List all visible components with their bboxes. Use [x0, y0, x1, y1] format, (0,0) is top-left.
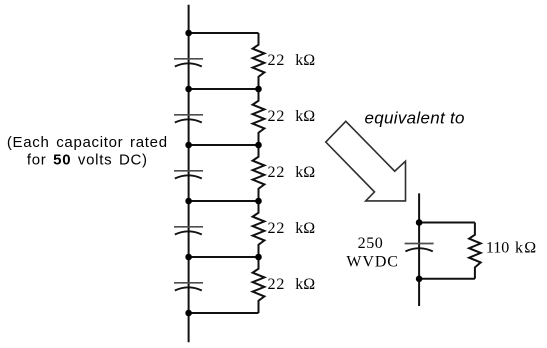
wire node6 horizontal [189, 312, 259, 314]
wire node3 horizontal [189, 144, 259, 146]
wire equivalent vertical bus [418, 193, 420, 306]
svg-text:110kΩ: 110kΩ [486, 239, 537, 256]
wire node2 horizontal [189, 88, 259, 90]
svg-text:WVDC: WVDC [346, 254, 398, 271]
resistor R equivalent [469, 223, 481, 279]
wire node4 horizontal [189, 200, 259, 202]
value label R5 22 kOhm [268, 276, 316, 293]
svg-text:22kΩ: 22kΩ [268, 164, 316, 181]
svg-text:(Each capacitor rated: (Each capacitor rated [7, 134, 168, 151]
capacitor C1 [174, 59, 203, 67]
resistor R5 [253, 257, 265, 313]
svg-text:22kΩ: 22kΩ [268, 220, 316, 237]
node B2 [255, 86, 262, 93]
value label R3 22 kOhm [268, 164, 316, 181]
wire equivalent bottom horizontal [419, 278, 475, 280]
node A3 [185, 142, 192, 149]
node EQ top [416, 219, 423, 226]
node A5 [185, 254, 192, 261]
capacitor C3 [174, 171, 203, 179]
capacitor C equivalent [405, 244, 434, 252]
capacitor C5 [174, 283, 203, 291]
annotation capacitor rating note [7, 134, 168, 168]
value label 250 WVDC [346, 235, 398, 271]
svg-text:22kΩ: 22kΩ [268, 108, 316, 125]
svg-text:22kΩ: 22kΩ [268, 52, 316, 69]
node B4 [255, 198, 262, 205]
resistor R3 [253, 145, 265, 201]
resistor R4 [253, 201, 265, 257]
label equivalent to [365, 108, 465, 127]
wire equivalent top horizontal [419, 222, 475, 224]
resistor R2 [253, 89, 265, 145]
node B3 [255, 142, 262, 149]
node EQ bottom [416, 276, 423, 283]
arrow equivalence (block arrow) [326, 121, 406, 201]
node B5 [255, 254, 262, 261]
wire main vertical bus [188, 5, 190, 342]
capacitor C2 [174, 115, 203, 123]
value label R2 22 kOhm [268, 108, 316, 125]
value label 110 kOhm [486, 239, 537, 256]
value label R4 22 kOhm [268, 220, 316, 237]
svg-text:22kΩ: 22kΩ [268, 276, 316, 293]
capacitor C4 [174, 227, 203, 235]
node A6 [185, 310, 192, 317]
wire node5 horizontal [189, 256, 259, 258]
svg-text:for 50 volts DC): for 50 volts DC) [27, 151, 148, 168]
node A2 [185, 86, 192, 93]
svg-text:equivalent to: equivalent to [365, 108, 465, 127]
svg-text:250: 250 [358, 235, 384, 252]
node A4 [185, 198, 192, 205]
value label R1 22 kOhm [268, 52, 316, 69]
node A1 [185, 30, 192, 37]
resistor R1 [253, 33, 265, 89]
wire node1 horizontal [189, 32, 259, 34]
